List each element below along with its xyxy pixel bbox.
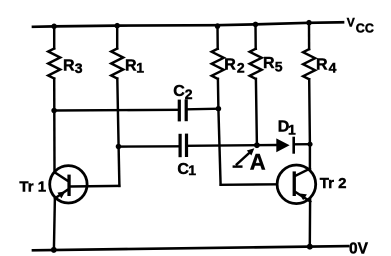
svg-text:1: 1 <box>136 60 144 76</box>
svg-text:1: 1 <box>188 162 196 178</box>
svg-text:R: R <box>316 57 328 74</box>
svg-text:5: 5 <box>275 59 283 75</box>
svg-text:4: 4 <box>329 59 337 75</box>
svg-text:3: 3 <box>75 60 83 76</box>
svg-text:0V: 0V <box>349 240 369 256</box>
svg-text:R: R <box>263 55 275 72</box>
svg-text:R: R <box>63 58 75 75</box>
svg-text:V: V <box>347 16 355 30</box>
svg-text:Tr 1: Tr 1 <box>19 179 46 196</box>
svg-text:Tr 2: Tr 2 <box>320 175 347 192</box>
svg-text:R: R <box>224 57 236 74</box>
svg-text:C: C <box>173 83 185 100</box>
svg-text:2: 2 <box>185 86 193 102</box>
svg-text:CC: CC <box>356 22 374 36</box>
svg-text:1: 1 <box>288 122 296 138</box>
svg-text:2: 2 <box>237 60 245 76</box>
svg-text:R: R <box>125 58 137 75</box>
svg-text:A: A <box>250 150 266 175</box>
